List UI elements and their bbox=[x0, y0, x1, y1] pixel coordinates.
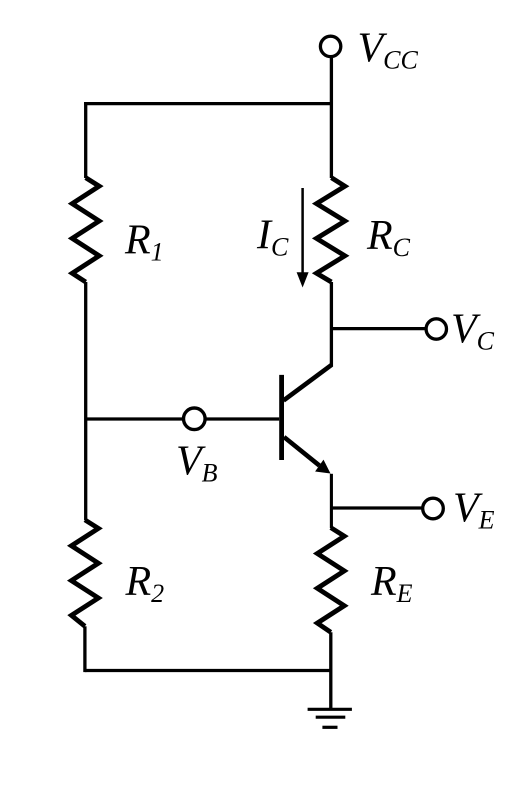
wire left rail middle bbox=[84, 282, 87, 520]
terminal VE circle bbox=[423, 498, 444, 519]
wire left rail upper bbox=[84, 102, 87, 178]
ground bbox=[308, 708, 352, 711]
resistor RC bbox=[317, 178, 345, 282]
transistor Q1 emitter diagonal with arrow bbox=[284, 437, 319, 466]
wire left rail lower bbox=[83, 626, 86, 672]
terminal VB circle bbox=[184, 408, 206, 430]
transistor Q1 base bar bbox=[279, 375, 284, 460]
terminal VC circle bbox=[426, 319, 446, 339]
wire base from divider bbox=[86, 417, 280, 420]
wire VCC stub down to RC bbox=[330, 57, 333, 178]
wire bottom rail bbox=[85, 669, 332, 672]
resistor R1 bbox=[72, 178, 99, 282]
wire node VE horizontal bbox=[331, 506, 422, 509]
wire RC bottom to collector bbox=[330, 282, 333, 367]
terminal VCC circle bbox=[320, 36, 340, 56]
wire node VC horizontal bbox=[331, 327, 426, 330]
wire emitter stub bbox=[330, 474, 333, 528]
current arrow IC bbox=[301, 188, 304, 274]
resistor RE bbox=[317, 528, 344, 633]
wire RE bottom to ground bbox=[329, 632, 332, 709]
transistor Q1 collector diagonal bbox=[284, 365, 332, 401]
wire top rail bbox=[84, 102, 331, 105]
resistor R2 bbox=[71, 520, 98, 626]
